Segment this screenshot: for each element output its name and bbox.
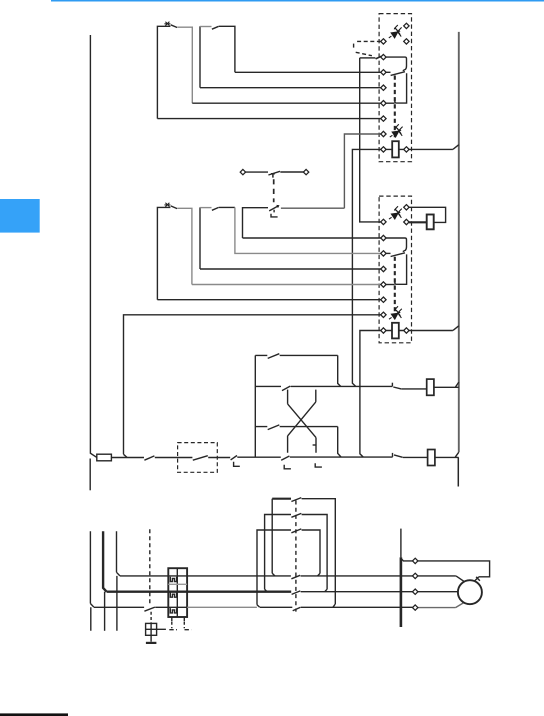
switch S2 blade [212, 26, 219, 29]
decorative blue side tab [0, 199, 40, 233]
wire module X1 coil feed down to mid row [352, 149, 381, 386]
junction diag riser phase1 right [333, 604, 335, 607]
switch S3 output to row 284 [177, 208, 192, 284]
relay contact K2 bracket lower [395, 254, 407, 284]
connector module X1 dashed outline [379, 14, 411, 162]
switch S6 in dashed housing [178, 443, 218, 473]
latch mark bottom row 2 [315, 463, 322, 467]
switch S6 contact blade [193, 456, 208, 461]
switch S2 left leg to row 88 [199, 26, 201, 87]
wire resistor R2 to right rail [435, 452, 459, 457]
wire phase3 top row [120, 575, 413, 577]
wire row 253 stub to blade [386, 252, 391, 254]
contactor K7 pole3 loop [257, 530, 320, 605]
switch S1 output to row 103 [177, 27, 192, 103]
overload element phase2 [170, 592, 176, 597]
contact S4 latch bracket [271, 210, 278, 217]
switch S1 blade [171, 25, 177, 28]
contact K5 blade [394, 455, 403, 457]
wire row 118 to module X1 pin 6 [157, 118, 381, 120]
overload relay bottom stubs [172, 617, 185, 621]
wire third row right leg down [338, 427, 341, 457]
decorative black footer bar [0, 713, 68, 716]
latch mark bottom row 1 [284, 465, 291, 469]
junction diag riser phase1 left [257, 605, 260, 608]
wire phase1 to motor [418, 603, 464, 608]
crossover block left bus [254, 355, 256, 457]
floating selector T mark [271, 173, 275, 177]
junction diag riser K7 right on phase3 [318, 573, 320, 576]
wire row 72 to module X1 pin 3 [235, 71, 381, 73]
contactor K7 pole1 loop [271, 499, 273, 574]
contactor K7 pole1 blade [291, 498, 301, 502]
connector module X2 dashed outline [379, 196, 411, 343]
junction diag riser K7 mid right [325, 589, 327, 592]
floating selector blade [268, 171, 280, 175]
motor M1 [458, 580, 482, 604]
crossover X diagonal TR-BL [288, 390, 316, 453]
feeder stub upper [400, 529, 402, 558]
branch diamonds [413, 558, 418, 563]
contact K5 tick [392, 453, 394, 457]
switch S3 blade [171, 206, 177, 209]
branch arrow tick [476, 577, 480, 581]
switch S1 star mark [164, 22, 170, 26]
wire row 103 stub [386, 102, 395, 104]
wire top row right leg down [338, 355, 341, 386]
wire coil K2 leads [386, 330, 404, 332]
wire right rail lower stub [457, 457, 459, 486]
wire row 238 to module X2 pin 2 [243, 237, 381, 239]
wire blade to resistor R2 [403, 456, 428, 458]
contact K4a blade [268, 425, 280, 430]
wire T-contact feed from row 238 [243, 208, 269, 238]
wire bottom row of crossover [290, 456, 393, 458]
contact S4 blade with arrow [269, 206, 278, 211]
relay contact K2 blade [391, 253, 405, 257]
module X2 pin diamonds right column [404, 205, 409, 334]
crossover X diagonal TL-BR [288, 404, 316, 453]
contact K3a top row [255, 354, 337, 356]
wire row 88 to module X1 pin 4 [200, 87, 381, 89]
decorative blue top rule [51, 0, 544, 2]
wire row 284 to module X2 pin 5 [192, 284, 381, 286]
branch to motor winding top [401, 558, 490, 581]
switch S4b left leg to row 269 [199, 207, 201, 269]
disconnect switch blade with earth link [144, 607, 155, 611]
wire resistor R1 to right rail [434, 382, 459, 387]
contact K6 blade [393, 387, 401, 389]
module X1 pin diamonds right column [404, 23, 409, 152]
earth junction box symbol [146, 623, 157, 635]
supply line L1 [90, 531, 94, 631]
crossover X link stub top-left [287, 390, 289, 404]
contactor K7 pole3 blade [291, 529, 301, 533]
module X2 second LED [389, 306, 402, 319]
floating selector wire [246, 171, 304, 173]
contact K8c blade phase1 [293, 607, 301, 611]
junction diag riser K7 left on phase3 [272, 573, 275, 576]
wire row 57 stub [360, 57, 376, 59]
auxiliary coil K2b loop [409, 207, 446, 222]
contact K8a blade phase3 [291, 575, 300, 579]
contactor K7 pole2 blade [291, 513, 301, 517]
module X2 pin diamonds left column [381, 219, 386, 333]
switch S3 left leg to row 299 [157, 207, 170, 299]
contact K8b blade phase2 [292, 591, 301, 595]
relay coil K2 [392, 323, 399, 339]
module X1 second LED [390, 124, 403, 137]
wire S5 to S6 [155, 457, 193, 459]
node B+: left supply rail [90, 35, 96, 457]
earth tail and bar [150, 635, 152, 641]
module X1 lever contact blade [376, 56, 382, 59]
wire mid row of crossover [255, 385, 392, 387]
wire phase1 into overload device [155, 606, 187, 608]
relay contact K1 bracket upper [386, 57, 407, 71]
wire row 284 stub [386, 284, 395, 286]
module X2 photo-LED symbol [389, 206, 402, 219]
contact K4b blade [281, 456, 289, 460]
wire module X1 pin2 down to module X2 pin1 [360, 58, 381, 222]
node 31: right ground rail [458, 32, 460, 452]
switch S2 output to row 72 [219, 26, 235, 72]
thermal overload relay F2 body [168, 568, 187, 617]
floating selector right diamond [303, 169, 308, 174]
wire phase2 right segment to motor [301, 591, 459, 593]
wire S7 to crossover block [237, 456, 280, 458]
wire row 72 stub to blade [386, 71, 391, 73]
contact K4a third row [255, 426, 337, 428]
wire blade to resistor R1 [402, 388, 427, 390]
wire row 299 to module X2 pin 6 [157, 299, 381, 301]
switch S7 contact blade [231, 456, 237, 460]
wire module X2 coil feed down to bottom row [360, 331, 381, 458]
crossover X bottom tick [313, 444, 317, 446]
dashed stub disconnect to earth box [150, 612, 152, 623]
contact K6 tick [391, 383, 393, 387]
wire fuse to switch S5 [111, 457, 144, 459]
supply line L3 [117, 531, 120, 631]
module X1 dashed actuator lever [354, 41, 381, 55]
module X1 photo-LED symbol [389, 25, 402, 38]
wire row 103 to module X1 pin 5 [192, 102, 381, 104]
module X1 mechanical dashed link [394, 76, 396, 140]
contact K3b blade [282, 386, 290, 391]
wire coil K1 to right rail [409, 145, 459, 150]
switch S4b output to row 253 [219, 206, 235, 208]
relay contact K1 blade [391, 72, 405, 76]
switch S4b blade [212, 207, 219, 210]
auxiliary coil K2b [427, 215, 434, 230]
switch S3 star mark [164, 203, 170, 207]
wire left rail drop stub [89, 459, 91, 491]
dashed link from contactor zone to disconnect [149, 529, 151, 606]
wire row 269 to module X2 pin 4 [200, 268, 381, 270]
wire S4 output rising to module X1 pin 7 [281, 134, 381, 208]
module X1 pin diamonds left column [381, 39, 386, 152]
wire phase3 to motor [418, 576, 464, 581]
wire coil K1 leads [386, 148, 404, 150]
floating selector wire left diamond [240, 169, 245, 174]
relay coil K1 [392, 141, 399, 157]
fuse F1 [97, 454, 112, 461]
wire phase1 after overload [187, 606, 257, 608]
dashed link selector to S4 [273, 179, 275, 202]
junction diag riser K7 mid left [265, 589, 268, 592]
relay contact K1 bracket lower [395, 73, 407, 103]
wire coil K2 to right rail [409, 326, 459, 331]
switch S5 contact blade [144, 456, 154, 460]
wire phase1 left segment [94, 606, 144, 608]
module X2 mechanical dashed link [394, 257, 396, 321]
resistor R2 [428, 450, 435, 466]
wire phase2 mid row thick [107, 591, 292, 593]
switch S1 left leg to row 118 [157, 26, 170, 118]
overload element phase1 [170, 608, 176, 613]
overload element phase3 [170, 577, 176, 582]
wire S6 to S7 [208, 457, 230, 459]
resistor R1 [427, 379, 434, 395]
dashed trip links under overload [171, 622, 173, 628]
switch S7 latch mark [234, 462, 240, 467]
overload slider bar [168, 583, 187, 585]
contact K3a blade [268, 354, 280, 359]
wire row 314 feed from module X2 pin 7 [124, 315, 381, 458]
auxiliary coil K2b thick lead [409, 221, 427, 223]
supply line L2 thick [103, 531, 107, 592]
contactor K7 pole2 loop [265, 515, 328, 590]
relay contact K2 bracket upper [386, 238, 407, 252]
contactor mechanical dashed link [295, 501, 297, 612]
feeder bus thick [400, 557, 403, 627]
